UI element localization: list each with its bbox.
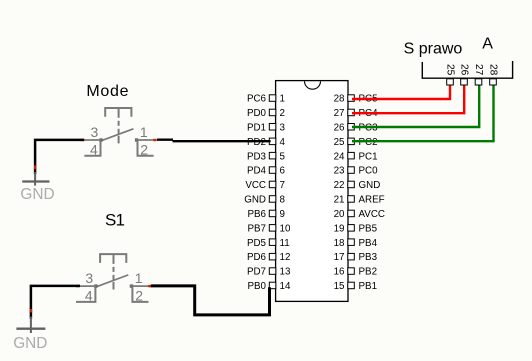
IC U1 pin 24 (PC1) — [334, 151, 378, 162]
switch Mode right pin stub — [137, 139, 154, 141]
svg-text:9: 9 — [280, 209, 285, 220]
svg-text:PD6: PD6 — [247, 252, 267, 263]
IC U1 pin 9 (PB6) — [247, 209, 284, 220]
svg-text:PB7: PB7 — [247, 223, 266, 234]
svg-text:PD3: PD3 — [247, 151, 267, 162]
wire PC2 (pin25) to connector 28 — [352, 86, 494, 142]
svg-text:15: 15 — [334, 281, 345, 292]
svg-text:PD0: PD0 — [247, 108, 267, 119]
IC U1 pin 26 (PC3) — [334, 122, 379, 133]
svg-text:5: 5 — [280, 151, 286, 162]
svg-text:PB2: PB2 — [359, 267, 378, 278]
IC U1 pin 8 (GND) — [244, 195, 285, 206]
svg-text:PC1: PC1 — [359, 151, 378, 162]
switch S1 actuator cap — [100, 254, 126, 263]
IC U1 pin 5 (PD3) — [247, 151, 286, 162]
svg-text:10: 10 — [280, 223, 291, 234]
svg-text:GND: GND — [359, 180, 381, 191]
switch Mode right contact junction — [135, 138, 138, 141]
connector pin 25 pad — [444, 64, 455, 85]
svg-text:4: 4 — [90, 141, 98, 157]
svg-text:PB3: PB3 — [359, 252, 378, 263]
svg-text:21: 21 — [334, 195, 345, 206]
svg-text:24: 24 — [334, 151, 345, 162]
svg-text:25: 25 — [444, 64, 455, 76]
svg-text:28: 28 — [487, 64, 498, 76]
svg-text:3: 3 — [85, 270, 93, 286]
svg-text:22: 22 — [334, 180, 345, 191]
IC U1 pin 6 (PD4) — [247, 166, 286, 177]
IC U1 pin 12 (PD6) — [247, 252, 290, 263]
connector pin 26 pad — [458, 64, 469, 85]
wire Mode pin 1 to IC pin 4 PD2 — [157, 140, 271, 142]
svg-text:1: 1 — [140, 124, 148, 140]
svg-text:Mode: Mode — [86, 83, 129, 100]
switch Mode left contact junction — [99, 138, 102, 141]
IC U1 pin 4 (PD2) — [247, 137, 286, 148]
svg-text:4: 4 — [85, 288, 93, 304]
switch S1 left pin stub — [79, 285, 96, 287]
IC U1 pin 3 (PD1) — [247, 122, 286, 133]
switch S1 left contact junction — [94, 284, 97, 287]
svg-text:GND: GND — [244, 195, 266, 206]
svg-text:13: 13 — [280, 267, 291, 278]
svg-text:2: 2 — [135, 288, 143, 304]
svg-text:GND: GND — [20, 186, 54, 203]
svg-text:PB6: PB6 — [247, 209, 266, 220]
wire PC4 (pin27) to connector 26 — [352, 86, 464, 114]
switch Mode left pin stub — [84, 139, 101, 141]
svg-text:20: 20 — [334, 209, 345, 220]
switch Mode actuator cap — [105, 108, 131, 117]
svg-text:S prawo: S prawo — [404, 41, 463, 58]
wire S1 pin 1 to IC pin 14 PB0 (down, right, up) — [151, 286, 270, 315]
IC U1 pin 19 (PB5) — [334, 223, 378, 234]
svg-text:23: 23 — [334, 166, 345, 177]
IC U1 pin 22 (GND) — [334, 180, 381, 191]
IC U1 pin 16 (PB2) — [334, 267, 377, 278]
svg-text:AVCC: AVCC — [359, 209, 386, 220]
IC U1 pin 7 (VCC) — [245, 180, 285, 191]
svg-text:17: 17 — [334, 252, 345, 263]
svg-text:VCC: VCC — [245, 180, 266, 191]
svg-text:27: 27 — [473, 64, 484, 76]
switch Mode actuator stem (dashed) — [118, 108, 120, 143]
svg-text:28: 28 — [334, 94, 345, 105]
pushbutton switch Mode — [81, 108, 157, 157]
net tick on GND wire — [34, 166, 37, 169]
svg-text:GND: GND — [13, 335, 47, 352]
svg-text:27: 27 — [334, 108, 345, 119]
svg-text:PC6: PC6 — [247, 94, 267, 105]
svg-text:3: 3 — [91, 124, 99, 140]
IC U1 pin 1 (PC6) — [247, 94, 285, 105]
IC U1 (ATmega8 DIP-28) body — [276, 81, 348, 302]
net tick on S1 GND wire — [30, 309, 33, 312]
svg-text:4: 4 — [280, 137, 286, 148]
IC U1 pin 13 (PD7) — [247, 267, 291, 278]
svg-text:7: 7 — [280, 180, 285, 191]
svg-text:2: 2 — [140, 141, 148, 157]
IC U1 pin 18 (PB4) — [334, 238, 378, 249]
IC U1 pin 28 (PC5) — [334, 94, 379, 105]
svg-text:26: 26 — [458, 64, 469, 76]
svg-text:S1: S1 — [105, 210, 124, 229]
ground symbol GND (under S1) — [16, 317, 45, 334]
switch Mode lever — [100, 129, 133, 141]
svg-text:PB1: PB1 — [359, 281, 378, 292]
svg-text:11: 11 — [280, 238, 290, 249]
switch S1 terminal 2 bracket — [132, 287, 148, 302]
svg-text:25: 25 — [334, 137, 345, 148]
wire PC5 (pin28) to connector 25 — [352, 86, 450, 100]
svg-text:3: 3 — [280, 122, 286, 133]
IC U1 pin 25 (PC2) — [334, 137, 378, 148]
IC U1 pin 15 (PB1) — [334, 281, 377, 292]
switch S1 terminal 4 bracket — [76, 287, 95, 302]
IC U1 pin 20 (AVCC) — [334, 209, 385, 220]
svg-text:2: 2 — [280, 108, 285, 119]
IC U1 pin 14 (PB0) — [247, 281, 290, 292]
connector S prawo body — [422, 61, 512, 78]
wire PC3 (pin26) to connector 27 — [352, 86, 479, 128]
IC U1 pin 27 (PC4) — [334, 108, 379, 119]
svg-text:PB4: PB4 — [359, 238, 378, 249]
switch S1 actuator stem (dashed) — [113, 254, 115, 289]
svg-text:19: 19 — [334, 223, 345, 234]
svg-text:PD4: PD4 — [247, 166, 267, 177]
svg-text:6: 6 — [280, 166, 286, 177]
svg-text:18: 18 — [334, 238, 345, 249]
svg-text:PB0: PB0 — [247, 281, 266, 292]
IC U1 pin 10 (PB7) — [247, 223, 290, 234]
wire Mode pin 3 to GND (left, down) — [35, 140, 84, 174]
switch S1 lever — [95, 275, 128, 287]
svg-text:A: A — [482, 36, 493, 53]
connector pin 28 pad — [487, 64, 498, 85]
svg-text:26: 26 — [334, 122, 345, 133]
svg-text:1: 1 — [135, 270, 143, 286]
svg-text:PC0: PC0 — [359, 166, 379, 177]
svg-text:AREF: AREF — [359, 195, 385, 206]
svg-text:PD7: PD7 — [247, 267, 266, 278]
connector pin 27 pad — [473, 64, 484, 85]
switch Mode terminal 2 bracket — [138, 141, 154, 156]
svg-text:14: 14 — [280, 281, 291, 292]
svg-text:PD5: PD5 — [247, 238, 267, 249]
svg-text:1: 1 — [280, 94, 285, 105]
IC U1 pin 17 (PB3) — [334, 252, 378, 263]
wire S1 pin 3 to GND (left, down) — [31, 286, 80, 319]
svg-text:PB5: PB5 — [359, 223, 378, 234]
svg-text:PD1: PD1 — [247, 122, 266, 133]
switch S1 right contact junction — [130, 284, 133, 287]
IC U1 pin 2 (PD0) — [247, 108, 285, 119]
pushbutton switch S1 — [76, 254, 152, 303]
IC U1 pin 21 (AREF) — [334, 195, 385, 206]
ground symbol GND (under Mode) — [22, 172, 49, 186]
switch Mode terminal 4 bracket — [84, 141, 100, 156]
svg-text:16: 16 — [334, 267, 345, 278]
svg-text:8: 8 — [280, 195, 286, 206]
switch S1 right pin stub — [132, 285, 149, 287]
svg-text:12: 12 — [280, 252, 291, 263]
IC U1 pin 23 (PC0) — [334, 166, 379, 177]
IC U1 pin 11 (PD5) — [247, 238, 290, 249]
